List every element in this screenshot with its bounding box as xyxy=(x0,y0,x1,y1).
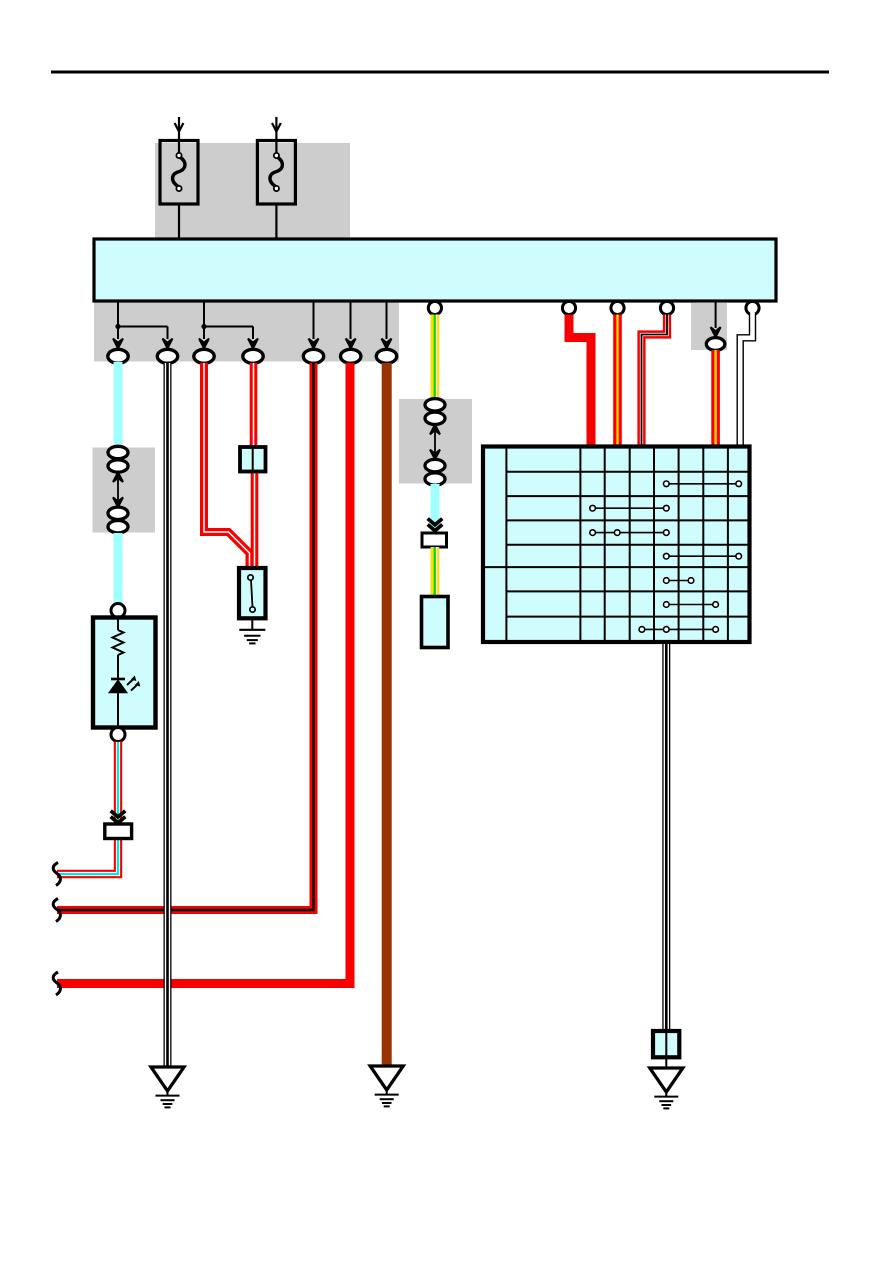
wire switch to ground xyxy=(251,618,253,630)
ground G4 under switch xyxy=(239,630,265,644)
wire brown to ground middle xyxy=(382,363,392,1066)
node circle bus 1 xyxy=(428,301,441,314)
wire light-blue lower segment xyxy=(114,533,123,605)
fusible link FL2 xyxy=(257,117,295,204)
indicator lamp unit with resistor and LED xyxy=(93,604,156,742)
connector pin 1 xyxy=(108,349,128,363)
connector pin 6 xyxy=(341,349,361,363)
wire break symbol left 1 xyxy=(53,863,60,886)
ground G3 xyxy=(650,1068,683,1108)
wire red/yellow from pin 8 into relay block xyxy=(711,350,720,445)
connector arrow 6 xyxy=(346,339,356,349)
shading below junction box left side xyxy=(94,301,399,362)
component box U1 xyxy=(422,597,449,648)
wire red/black to left break xyxy=(57,363,314,910)
node circle bus 2 xyxy=(562,301,575,314)
wire light-blue segment below J3 xyxy=(431,484,440,532)
bus tap wires to connectors 1-7 xyxy=(117,301,387,339)
shading behind fusible links xyxy=(155,143,350,239)
junction block J2 on red/white wire xyxy=(240,447,266,472)
wire red heavy jog into relay block xyxy=(569,315,591,446)
wire yellow/green lower segment xyxy=(435,547,437,598)
connector arrow 5 xyxy=(309,339,319,349)
wire white jog into relay block xyxy=(740,312,752,445)
wire red/light-blue from lamp to left break xyxy=(57,742,118,875)
connector arrow 8 xyxy=(711,327,721,337)
wire J4 to ground xyxy=(665,1057,667,1068)
relay block R/B xyxy=(483,447,750,643)
junction box bus xyxy=(94,239,776,301)
wire red/black jog into relay block xyxy=(642,315,668,446)
connector pin 8 xyxy=(706,338,725,351)
connector arrow 2 xyxy=(163,339,173,349)
wire red heavy to left break xyxy=(57,363,350,984)
fusible link FL1 xyxy=(160,117,198,204)
wire break symbol left 2 xyxy=(53,899,60,922)
shading behind inline connector J3 xyxy=(399,399,472,484)
connector pin 5 xyxy=(303,349,323,363)
ground G1 xyxy=(151,1067,184,1107)
connector pin 4 xyxy=(243,349,263,363)
wire break symbol left 3 xyxy=(53,972,60,995)
junction node B xyxy=(201,324,206,329)
wire red/white straight segment lower xyxy=(251,471,259,570)
wire red/white jog into switch xyxy=(204,363,250,570)
connector arrow 7 xyxy=(382,339,392,349)
wire yellow/green upper segment xyxy=(435,315,437,401)
connector pin 7 xyxy=(376,349,396,363)
junction block J4 bottom right xyxy=(653,1031,679,1057)
switch SW1 xyxy=(239,568,266,618)
connector arrow 1 xyxy=(113,339,123,349)
inline connector J1 xyxy=(108,446,128,533)
connector pin 3 xyxy=(194,349,214,363)
shading behind inline connector J1 xyxy=(93,448,156,533)
wire FL2 to junction box xyxy=(275,204,277,239)
relay block internal links xyxy=(590,481,742,632)
node circle bus 3 xyxy=(611,301,624,314)
wire white/black to ground left xyxy=(164,363,172,1067)
wire white/black from relay block to ground right xyxy=(662,644,670,1031)
node circle bus 4 xyxy=(660,301,673,314)
shading behind connector pin 8 xyxy=(691,303,727,351)
bus tap wire to connector pin 8 xyxy=(715,301,717,328)
node circle bus 5 xyxy=(746,301,759,314)
splice box on red/light-blue wire xyxy=(105,824,132,839)
wire red/white straight segment upper xyxy=(250,363,258,448)
connector arrow on red/light-blue wire xyxy=(111,811,126,823)
connector arrow 3 xyxy=(199,339,209,349)
connector arrow 4 xyxy=(248,339,258,349)
splice box on yellow/green wire xyxy=(422,533,447,547)
top rule line xyxy=(51,71,829,74)
inline connector J3 xyxy=(425,399,445,486)
connector pin 2 xyxy=(157,349,177,363)
junction node A xyxy=(115,324,120,329)
connector arrow on light-blue wire xyxy=(428,519,443,531)
wire FL1 to junction box xyxy=(178,204,180,239)
wire red/yellow into relay block xyxy=(613,315,622,446)
ground G2 xyxy=(370,1066,403,1106)
wire light-blue upper segment xyxy=(114,362,123,448)
